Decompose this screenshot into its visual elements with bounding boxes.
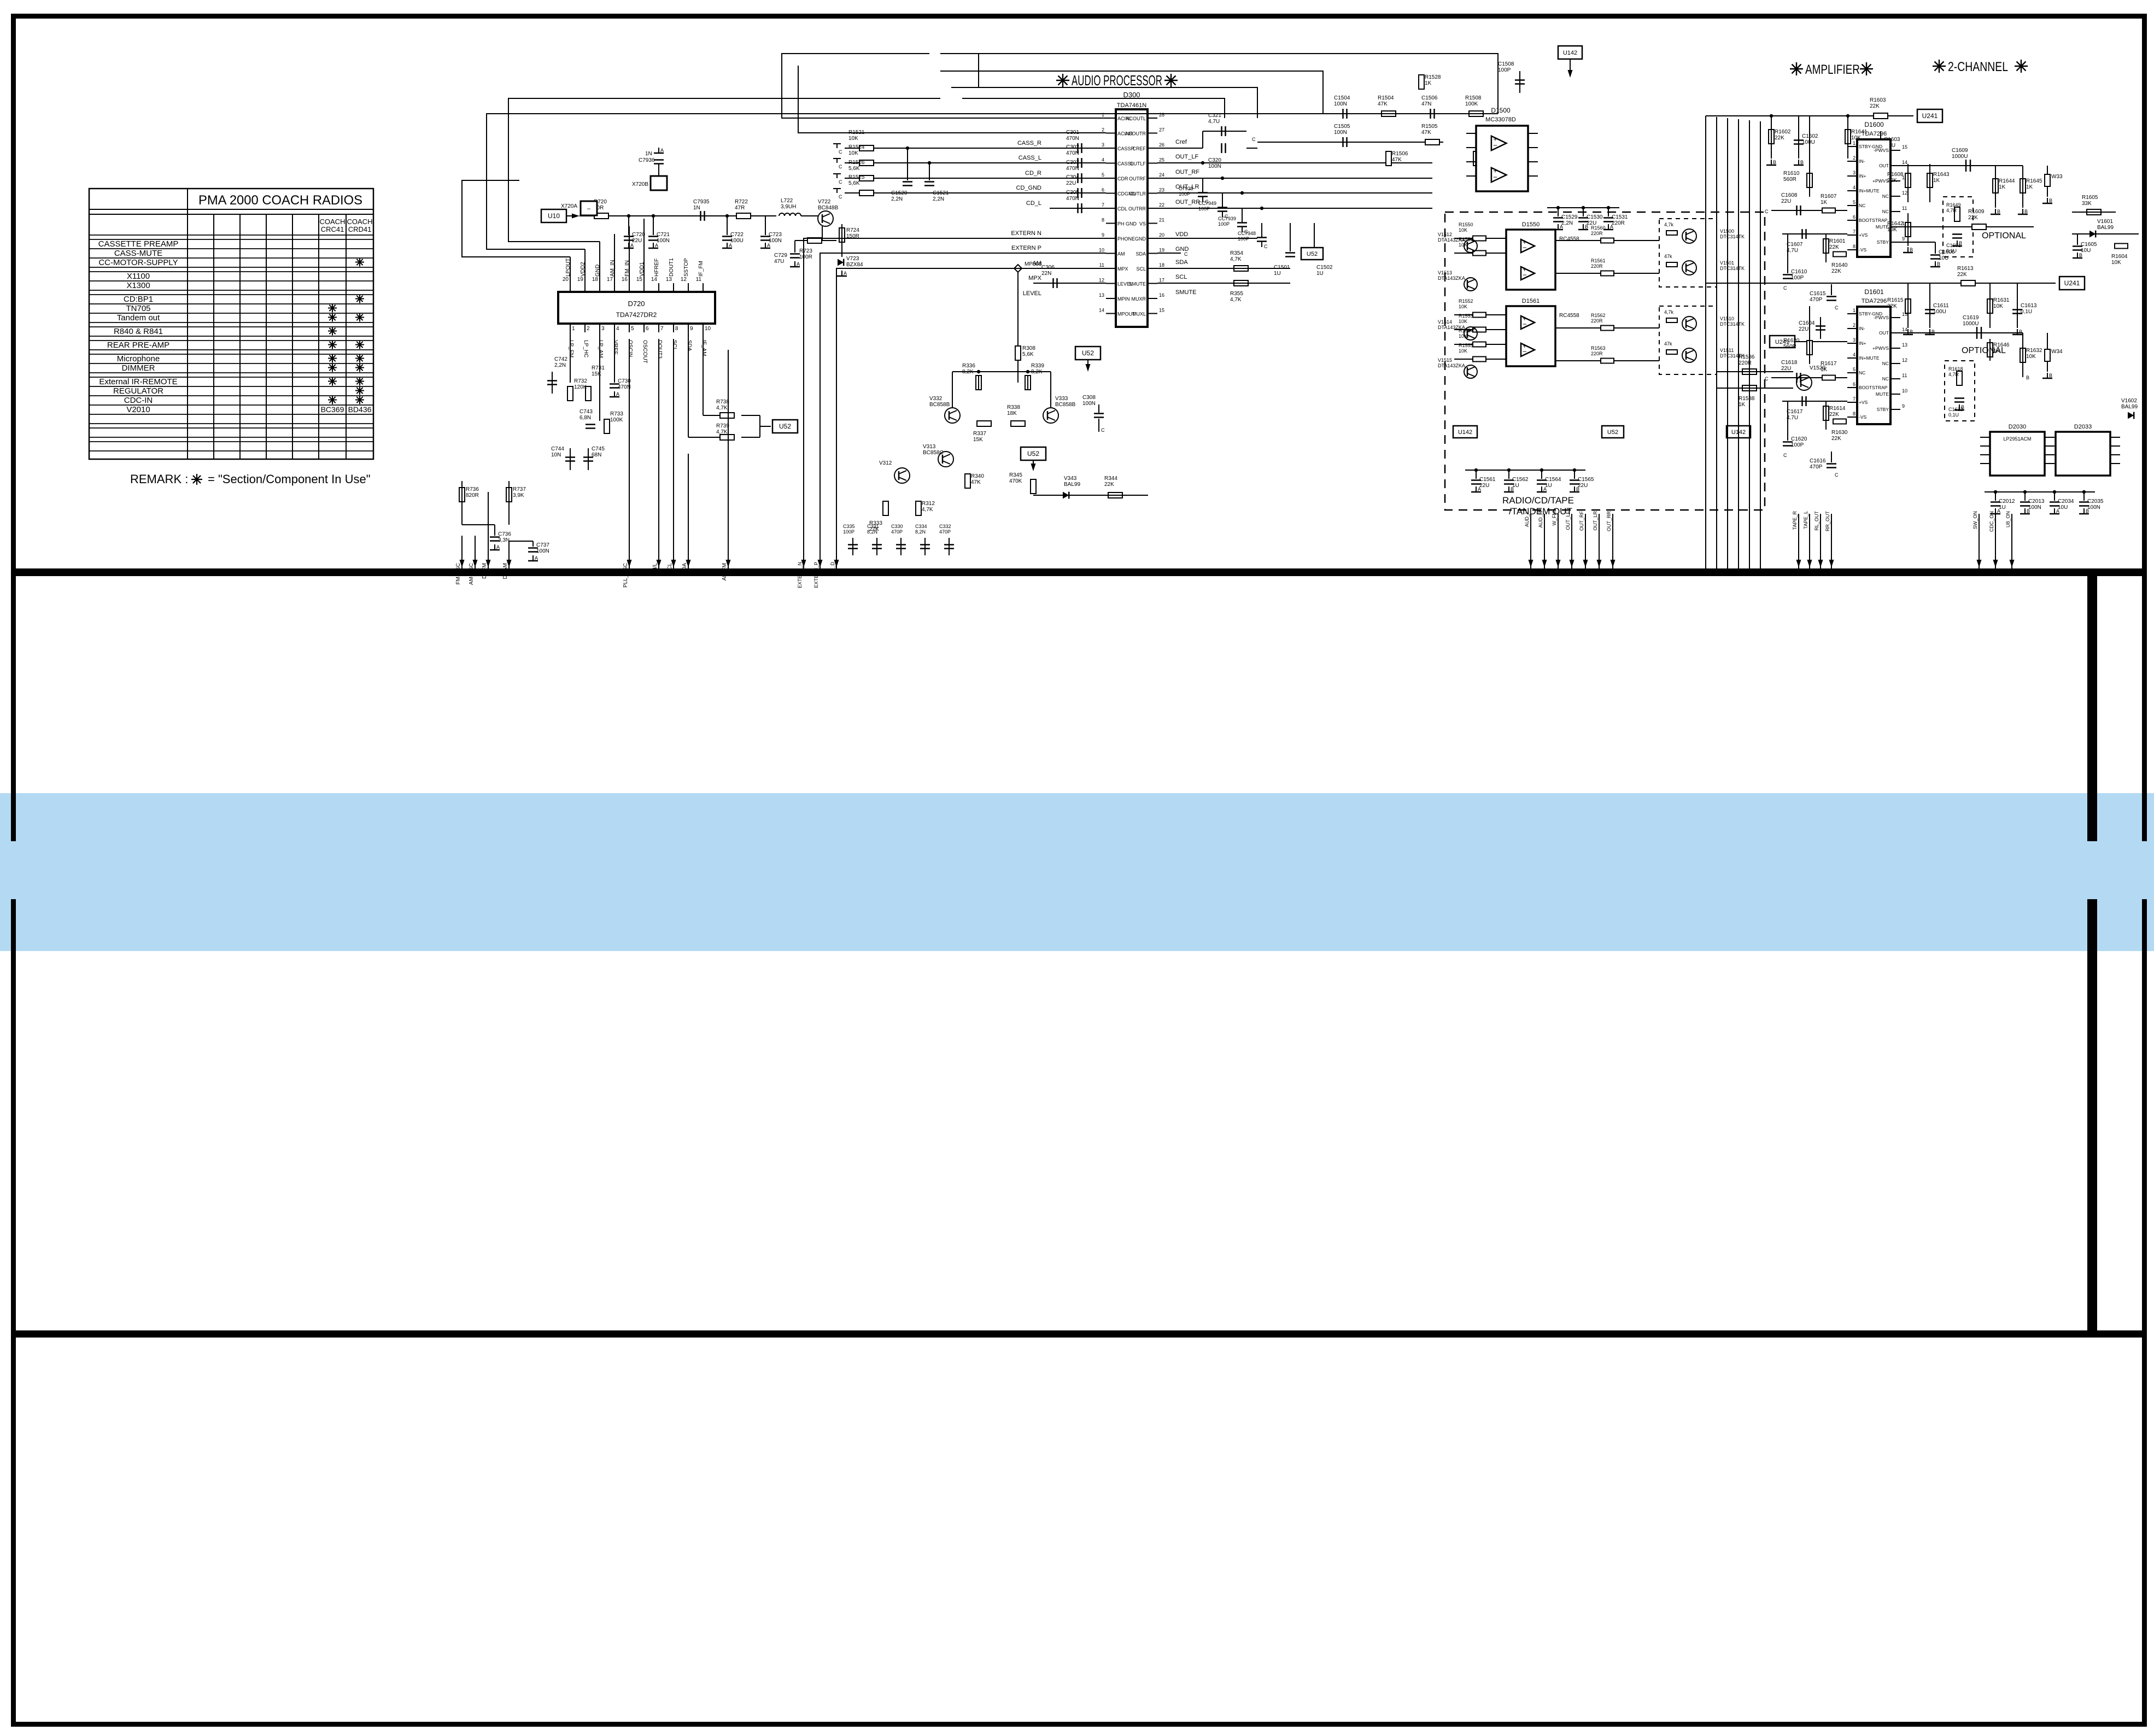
svg-text:7: 7 [1102, 202, 1104, 208]
svg-text:D1500: D1500 [1491, 107, 1511, 114]
capacitor C306 [1052, 278, 1054, 288]
small caps right of D1500 [1547, 207, 1619, 208]
svg-text:24: 24 [1159, 172, 1164, 178]
svg-text:R732: R732 [574, 378, 587, 384]
svg-text:28: 28 [1159, 112, 1164, 118]
svg-text:C1506: C1506 [1421, 95, 1438, 101]
svg-text:C1530: C1530 [1587, 214, 1603, 220]
svg-text:AM_D: AM_D [830, 562, 835, 576]
svg-text:B: B [2026, 375, 2029, 380]
IC D1550 RC4558 [1506, 230, 1555, 290]
svg-text:CASS_R: CASS_R [1017, 140, 1041, 146]
svg-text:C721: C721 [657, 232, 670, 238]
wire upper routing D720 [462, 180, 570, 257]
svg-text:MPIN: MPIN [1117, 296, 1130, 302]
svg-text:R1632: R1632 [2026, 348, 2042, 354]
svg-text:16: 16 [622, 277, 628, 283]
svg-text:18: 18 [1159, 262, 1164, 268]
svg-text:V343: V343 [1064, 476, 1077, 482]
svg-text:C: C [1101, 427, 1105, 433]
svg-text:4: 4 [1853, 352, 1856, 357]
svg-text:12: 12 [1099, 278, 1104, 283]
wires from D720 to upper rails [570, 257, 571, 283]
svg-text:R1642: R1642 [1887, 221, 1904, 227]
svg-text:A: A [844, 271, 847, 276]
svg-text:2: 2 [1853, 155, 1856, 161]
svg-text:REMARK :: REMARK : [130, 472, 188, 486]
svg-text:100P: 100P [843, 529, 854, 535]
svg-text:R345: R345 [1009, 472, 1022, 478]
svg-text:R337: R337 [973, 431, 986, 437]
svg-text:D1601: D1601 [1864, 288, 1884, 296]
svg-text:12: 12 [1902, 357, 1907, 363]
svg-text:IN+: IN+ [1859, 341, 1866, 346]
svg-text:C304: C304 [1066, 174, 1079, 180]
svg-text:TAPE_L: TAPE_L [1803, 511, 1808, 529]
svg-text:R731: R731 [592, 365, 605, 371]
svg-text:C1605: C1605 [2081, 242, 2097, 248]
svg-text:20: 20 [1159, 232, 1164, 238]
long routing wires top center [940, 54, 1498, 114]
svg-text:1K: 1K [1821, 367, 1828, 373]
svg-text:470N: 470N [1066, 196, 1079, 202]
svg-text:13: 13 [666, 277, 672, 283]
svg-text:MPX: MPX [1117, 266, 1128, 272]
svg-text:CASSETTE PREAMP: CASSETTE PREAMP [98, 239, 179, 249]
svg-text:W33: W33 [2051, 174, 2063, 180]
svg-text:22U: 22U [1578, 483, 1588, 489]
svg-text:X1100: X1100 [127, 272, 150, 281]
svg-text:VS: VS [1139, 221, 1146, 227]
svg-text:22K: 22K [1968, 215, 1978, 221]
svg-text:100P: 100P [1179, 191, 1190, 197]
svg-text:A: A [797, 261, 800, 267]
capacitor C7936 [658, 164, 659, 176]
svg-text:C: C [1783, 453, 1787, 458]
svg-text:W_FM: W_FM [1552, 511, 1557, 526]
svg-text:C: C [839, 179, 842, 185]
svg-text:C1620: C1620 [1791, 436, 1807, 442]
svg-text:100U: 100U [1802, 139, 1815, 145]
svg-text:C743: C743 [580, 409, 593, 415]
svg-text:C2034: C2034 [2058, 498, 2074, 505]
svg-text:1: 1 [1102, 112, 1104, 118]
svg-text:100N: 100N [1208, 163, 1221, 169]
svg-text:COACH: COACH [347, 218, 373, 226]
svg-text:C1564: C1564 [1545, 477, 1561, 483]
svg-text:1K: 1K [1933, 178, 1940, 184]
svg-text:10: 10 [1099, 248, 1104, 253]
capacitor C730 [614, 332, 615, 383]
svg-text:C: C [839, 149, 842, 155]
svg-text:R339: R339 [1031, 363, 1044, 369]
svg-text:R1615: R1615 [1887, 297, 1904, 303]
svg-text:R1644: R1644 [1999, 178, 2015, 184]
svg-text:D1550: D1550 [1522, 221, 1540, 228]
caps C320 C321 [1221, 126, 1222, 136]
svg-text:4,7k: 4,7k [1664, 222, 1674, 227]
svg-text:100N: 100N [536, 548, 549, 554]
svg-text:100P: 100P [1791, 442, 1804, 448]
svg-text:10K: 10K [1459, 242, 1467, 248]
svg-text:R1524: R1524 [848, 144, 865, 150]
svg-text:V333: V333 [1055, 396, 1068, 402]
right lower ICs D2030 D2033 [1990, 432, 2045, 476]
svg-text:OUTLR: OUTLR [1129, 191, 1146, 197]
svg-text:BC369: BC369 [321, 405, 344, 414]
svg-text:19: 19 [577, 277, 584, 283]
output net C1609 R1644 R1645 [1900, 165, 2023, 166]
svg-text:B: B [2049, 373, 2052, 378]
svg-text:NC: NC [1882, 361, 1889, 366]
svg-text:26: 26 [1159, 142, 1164, 148]
U10 supply box [541, 209, 566, 222]
svg-text:18: 18 [592, 277, 599, 283]
svg-text:R1607: R1607 [1821, 193, 1837, 200]
svg-text:100U: 100U [1933, 309, 1946, 315]
svg-text:R1645: R1645 [2026, 178, 2042, 184]
svg-text:22K: 22K [1831, 268, 1841, 274]
caps row C335 C331 C330 C333 C552 [848, 544, 858, 546]
svg-text:C745: C745 [592, 446, 605, 452]
IC D720 TDA7427DR2 [558, 292, 715, 324]
svg-text:2: 2 [1853, 322, 1856, 328]
svg-text:47K: 47K [1392, 157, 1402, 163]
svg-text:6,8N: 6,8N [580, 415, 591, 421]
R1586 R1588 resistors [1742, 369, 1757, 374]
svg-text:U52: U52 [779, 423, 791, 430]
svg-text:C2035: C2035 [2087, 498, 2104, 505]
svg-text:CD_R: CD_R [1025, 170, 1041, 177]
svg-text:AM-OSC: AM-OSC [469, 563, 475, 585]
svg-text:470N: 470N [1066, 166, 1079, 172]
R1615 C1611 R1631 C1613 R1646 [1905, 299, 1911, 313]
svg-text:MP308: MP308 [1025, 261, 1042, 267]
svg-text:‒: ‒ [587, 206, 591, 212]
svg-text:A: A [496, 544, 500, 550]
svg-text:R336: R336 [962, 363, 975, 369]
svg-text:1N: 1N [693, 205, 700, 211]
svg-text:V1602: V1602 [2121, 398, 2137, 404]
svg-text:220R: 220R [1591, 263, 1603, 269]
svg-text:BOOTSTRAP: BOOTSTRAP [1859, 218, 1888, 223]
svg-text:4,7U: 4,7U [1208, 119, 1220, 125]
svg-text:Tandem out: Tandem out [117, 313, 160, 322]
svg-text:C: C [1765, 209, 1769, 214]
svg-text:DUAM: DUAM [502, 563, 508, 579]
svg-text:1U: 1U [1274, 271, 1281, 277]
svg-text:R1630: R1630 [1831, 430, 1848, 436]
svg-text:470N: 470N [1066, 150, 1079, 156]
svg-text:2,2N: 2,2N [554, 362, 566, 368]
svg-text:C1520: C1520 [891, 190, 908, 196]
svg-text:1K: 1K [1999, 184, 2006, 190]
svg-text:SCL: SCL [671, 340, 677, 351]
svg-text:REGULATOR: REGULATOR [113, 386, 163, 396]
svg-text:CREF: CREF [1133, 146, 1146, 151]
svg-text:R1506: R1506 [1392, 151, 1408, 157]
svg-text:U142: U142 [1563, 50, 1577, 56]
svg-text:R354: R354 [1230, 250, 1243, 256]
table PMA 2000 COACH RADIOS [89, 189, 373, 459]
svg-text:C320: C320 [1208, 157, 1221, 163]
wires fanning from D300 left side [782, 54, 1106, 118]
svg-text:RC4558: RC4558 [1559, 313, 1579, 319]
svg-text:14: 14 [651, 277, 658, 283]
svg-text:TAPE_R: TAPE_R [1792, 511, 1798, 530]
svg-text:22N: 22N [1041, 271, 1051, 277]
svg-text:5: 5 [1102, 172, 1104, 178]
svg-text:47K: 47K [1378, 101, 1388, 107]
svg-text:C7935: C7935 [693, 199, 710, 205]
svg-text:SDA: SDA [1175, 259, 1188, 266]
svg-text:CDR: CDR [1117, 176, 1128, 181]
svg-text:+VS: +VS [1859, 232, 1868, 238]
svg-text:C335: C335 [843, 524, 855, 529]
svg-text:100K: 100K [610, 417, 623, 423]
svg-text:22U: 22U [1066, 180, 1076, 186]
svg-text:R1563: R1563 [1591, 345, 1606, 351]
svg-text:OPTIONAL: OPTIONAL [1982, 231, 2026, 241]
svg-text:BC848B: BC848B [818, 205, 839, 211]
svg-text:CD:BP1: CD:BP1 [124, 295, 153, 304]
svg-text:C1613: C1613 [2021, 303, 2037, 309]
svg-text:NC: NC [1882, 209, 1889, 214]
svg-text:VREF: VREF [612, 340, 618, 355]
svg-text:22K: 22K [1831, 436, 1841, 442]
svg-text:11: 11 [1902, 373, 1907, 378]
caps C7938 CC7949 CC7939 CC7948 100P [1201, 161, 1204, 165]
svg-text:TDA7427DR2: TDA7427DR2 [616, 311, 657, 319]
svg-text:R1640: R1640 [1831, 262, 1848, 268]
svg-text:R723: R723 [799, 248, 812, 254]
svg-text:R840 & R841: R840 & R841 [114, 327, 163, 336]
svg-text:100U: 100U [730, 238, 744, 244]
svg-text:V313: V313 [923, 444, 936, 450]
svg-text:B: B [1959, 241, 1962, 246]
svg-text:IN+: IN+ [1859, 173, 1866, 179]
R1608 R1643 R1642 R1649 C1601 optional [1905, 173, 1911, 187]
svg-text:10K: 10K [1459, 319, 1467, 324]
svg-text:10: 10 [705, 326, 711, 332]
svg-text:LP_AM: LP_AM [598, 340, 604, 358]
svg-text:NC: NC [1882, 193, 1889, 199]
outer border frame [11, 14, 2147, 19]
svg-text:100N: 100N [769, 238, 782, 244]
svg-text:D1600: D1600 [1864, 121, 1884, 128]
amp2 output C1619 etc [1900, 332, 2023, 333]
svg-text:1U: 1U [1999, 505, 2006, 511]
svg-text:21: 21 [1159, 218, 1164, 223]
svg-text:16: 16 [1159, 292, 1164, 298]
capacitor C743 / resistor R733 [599, 332, 600, 421]
svg-text:LP2951ACM: LP2951ACM [2003, 436, 2031, 442]
svg-text:10N: 10N [551, 452, 561, 458]
svg-text:27: 27 [1159, 127, 1164, 133]
bus wires from tuner to separator bar [461, 536, 463, 568]
svg-text:560R: 560R [1783, 177, 1796, 183]
svg-text:47R: 47R [735, 205, 745, 211]
svg-text:MUTE: MUTE [1876, 391, 1889, 397]
separator bar between middle sheet and bottom sheet [16, 1330, 2142, 1338]
svg-text:220R: 220R [1591, 351, 1603, 356]
svg-text:4,7K: 4,7K [922, 507, 933, 513]
arrows amplifier region to bar [1530, 514, 1531, 568]
svg-text:DTA143ZKA: DTA143ZKA [1438, 237, 1465, 243]
svg-text:D1561: D1561 [1522, 298, 1540, 304]
svg-text:R1603: R1603 [1870, 97, 1886, 103]
svg-text:100P: 100P [1791, 275, 1804, 281]
svg-text:8: 8 [1853, 411, 1856, 417]
svg-text:C742: C742 [554, 356, 567, 362]
long vertical wires amplifier to bar [1705, 116, 1706, 568]
svg-text:D2030: D2030 [2009, 424, 2026, 430]
svg-text:OUT_RR: OUT_RR [1175, 199, 1200, 206]
svg-text:R1649: R1649 [1946, 202, 1961, 208]
svg-text:4,7U: 4,7U [1787, 248, 1798, 254]
svg-text:VDD: VDD [1175, 231, 1188, 238]
svg-text:= "Section/Component In Use": = "Section/Component In Use" [208, 472, 371, 486]
svg-text:R340: R340 [971, 473, 984, 479]
svg-text:C308: C308 [1082, 395, 1096, 401]
svg-text:−: − [1523, 320, 1527, 329]
mux section resistors right [1555, 240, 1659, 241]
svg-text:470P: 470P [891, 529, 903, 535]
svg-text:NC: NC [1859, 370, 1865, 376]
parts below D2030 [1985, 491, 2095, 492]
svg-text:TDA7461N: TDA7461N [1117, 102, 1146, 109]
top sheet content group [455, 46, 2139, 588]
svg-text:10: 10 [1902, 388, 1907, 394]
svg-text:CASS-MUTE: CASS-MUTE [114, 249, 162, 258]
svg-text:U52: U52 [1027, 450, 1039, 458]
svg-text:CD_GND: CD_GND [1016, 185, 1042, 191]
svg-text:4,7k: 4,7k [1664, 309, 1674, 315]
svg-text:−: − [1523, 244, 1527, 252]
svg-text:DUFM: DUFM [482, 563, 488, 579]
svg-text:DTA143ZKA: DTA143ZKA [1438, 325, 1465, 330]
svg-text:4,7R: 4,7R [1948, 372, 1959, 377]
svg-text:68N: 68N [592, 452, 601, 458]
U52 box near mute [1075, 347, 1101, 360]
svg-text:DOUT3: DOUT3 [657, 340, 663, 359]
transistor pair dashed DTC314TK upper [1659, 219, 1717, 287]
svg-text:17: 17 [1159, 278, 1164, 283]
amp input parts R1610 C1608 R1607 C1607 [1807, 173, 1812, 187]
svg-text:3,9K: 3,9K [513, 492, 524, 498]
svg-text:BAL99: BAL99 [1064, 482, 1080, 488]
svg-text:120K: 120K [574, 384, 587, 390]
svg-text:11: 11 [696, 277, 702, 283]
svg-text:IF_AM: IF_AM [701, 340, 707, 356]
svg-text:OUT_RR: OUT_RR [1606, 511, 1612, 532]
svg-text:-VS: -VS [1859, 247, 1867, 253]
dashed box RADIO/CD/TAPE/TANDEM OUT [1445, 212, 1765, 510]
svg-text:9: 9 [690, 326, 693, 332]
mux transistors V1512 V1513 V1514 V1515 [1464, 239, 1477, 253]
capacitor C308 [1094, 413, 1104, 414]
svg-text:IN-: IN- [1859, 326, 1865, 331]
svg-text:R724: R724 [846, 227, 859, 233]
svg-text:R1608: R1608 [1887, 172, 1904, 178]
svg-text:220R: 220R [1591, 231, 1603, 236]
section label AMPLIFIER [1790, 68, 1803, 69]
svg-text:4,7K: 4,7K [1230, 297, 1242, 303]
bootstrap cap C1604 [1816, 325, 1825, 327]
U241 box to +VS [1770, 336, 1795, 348]
zener V723 BZX84 [838, 259, 844, 266]
svg-text:11: 11 [1902, 206, 1907, 211]
svg-text:10K: 10K [848, 150, 858, 156]
svg-text:18K: 18K [1007, 410, 1017, 417]
resistor R720 [580, 215, 612, 216]
svg-text:10U: 10U [1939, 255, 1948, 261]
svg-text:47K: 47K [971, 479, 981, 485]
svg-text:FM-OSC: FM-OSC [455, 563, 461, 584]
svg-text:C2013: C2013 [2028, 498, 2045, 505]
svg-text:C7938: C7938 [1179, 186, 1193, 191]
svg-text:C729: C729 [774, 253, 787, 259]
svg-text:0,1U: 0,1U [1948, 412, 1959, 418]
svg-text:2: 2 [587, 326, 590, 332]
svg-text:V332: V332 [929, 396, 943, 402]
svg-text:7: 7 [1853, 396, 1856, 402]
svg-text:100P: 100P [1198, 206, 1210, 212]
svg-text:+PWVS: +PWVS [1872, 178, 1889, 184]
IC D1560 RC4558 [1506, 306, 1555, 366]
svg-text:C1607: C1607 [1787, 242, 1803, 248]
svg-text:100N: 100N [2087, 505, 2100, 511]
svg-text:4,7K: 4,7K [1230, 256, 1242, 262]
svg-text:22U: 22U [1781, 198, 1791, 204]
svg-text:R1631: R1631 [1993, 297, 2010, 303]
U142 U52 boxes in mux section [1453, 426, 1477, 438]
svg-text:BZX84: BZX84 [846, 262, 863, 268]
transistor V722 BC848B [818, 211, 833, 226]
svg-text:RL_OUT: RL_OUT [1814, 511, 1819, 531]
svg-text:R1601: R1601 [1829, 238, 1846, 244]
svg-text:C737: C737 [536, 542, 549, 548]
svg-text:R1602: R1602 [1775, 129, 1791, 135]
svg-text:22K: 22K [1887, 303, 1897, 309]
svg-text:DTC314TK: DTC314TK [1720, 266, 1745, 271]
svg-text:15: 15 [636, 277, 643, 283]
svg-text:560R: 560R [1783, 344, 1796, 350]
svg-text:GND: GND [1135, 236, 1146, 242]
svg-text:BC858B: BC858B [1055, 402, 1076, 408]
svg-text:1U: 1U [1545, 483, 1552, 489]
svg-text:C1565: C1565 [1578, 477, 1594, 483]
svg-text:R1586: R1586 [1739, 354, 1755, 360]
svg-text:C303: C303 [1066, 160, 1079, 166]
svg-text:BOOTSTRAP: BOOTSTRAP [1859, 385, 1888, 390]
svg-text:L722: L722 [781, 198, 793, 204]
svg-text:14: 14 [1902, 160, 1907, 165]
svg-text:SMUTE: SMUTE [1129, 281, 1146, 287]
svg-text:25: 25 [1159, 157, 1164, 163]
svg-text:TDA7296: TDA7296 [1862, 131, 1887, 137]
svg-text:10K: 10K [1459, 304, 1467, 309]
output wires right of D300 [1157, 162, 1432, 163]
svg-text:OUT_RF: OUT_RF [1579, 511, 1584, 531]
svg-text:1U: 1U [1512, 483, 1519, 489]
svg-text:22K: 22K [1775, 135, 1784, 141]
svg-text:+PWVS: +PWVS [1872, 345, 1889, 351]
svg-text:15: 15 [1902, 144, 1907, 150]
svg-text:C: C [839, 194, 842, 200]
svg-text:CDL: CDL [1117, 206, 1127, 212]
svg-text:100N: 100N [1334, 101, 1347, 107]
